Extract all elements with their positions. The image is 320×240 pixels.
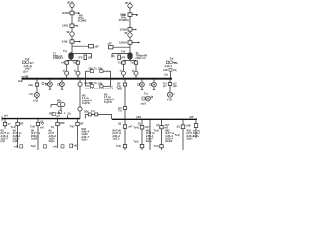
breaker branch A1	[65, 61, 68, 64]
breaker branch B1	[122, 61, 125, 64]
disconnect circle chain B	[128, 33, 132, 37]
svg-text:(F(2: (F(2	[49, 112, 54, 115]
junction dots bottom buses	[4, 118, 197, 120]
feeder drop M4	[150, 80, 157, 90]
junction dots main bus	[36, 78, 171, 80]
svg-text:IF4: IF4	[122, 57, 126, 60]
bottom bus right	[112, 118, 197, 120]
breaker branch B2	[134, 61, 137, 64]
bottom drop x183	[181, 120, 185, 150]
svg-text:Tx(: Tx(	[73, 62, 77, 65]
left mini cluster	[23, 61, 30, 64]
bottom stub box near x20	[20, 145, 23, 148]
svg-text:GB(: GB(	[98, 82, 103, 85]
disconnect circle branch A1	[65, 71, 69, 75]
svg-text:TxB(: TxB(	[116, 88, 122, 91]
svg-text:(2): (2)	[40, 120, 43, 123]
svg-text:x2F: x2F	[108, 43, 113, 46]
svg-text:AC(M45): AC(M45)	[119, 19, 129, 22]
svg-text:Tx4(: Tx4(	[116, 145, 121, 148]
svg-text:(x(20: (x(20	[13, 140, 19, 143]
breaker Q3 chain A	[70, 40, 80, 43]
svg-text:1x(2 W: 1x(2 W	[82, 102, 91, 105]
svg-text:W(x: W(x	[57, 99, 62, 102]
svg-text:G250: G250	[62, 11, 70, 15]
svg-text:Tx4(: Tx4(	[133, 140, 138, 143]
svg-text:x4?: x4?	[40, 127, 45, 130]
disconnect circle branch A2	[76, 71, 80, 75]
metering bracket B	[100, 70, 111, 88]
breaker Q6 chain B	[128, 41, 140, 44]
svg-text:Tx(: Tx(	[118, 62, 122, 65]
svg-text:x4x(: x4x(	[28, 84, 33, 87]
svg-text:GB(: GB(	[98, 67, 103, 70]
disconnect circle branch B2	[134, 71, 138, 75]
svg-text:(2x?: (2x?	[23, 70, 29, 73]
bottom drop x38	[36, 119, 43, 150]
bottom drop x125 continuation	[123, 120, 126, 150]
bottom drop x150 plain	[149, 120, 151, 150]
svg-text:120(4: 120(4	[119, 41, 127, 45]
wire split chain B	[124, 60, 137, 79]
svg-text:Tx4(: Tx4(	[154, 145, 159, 148]
svg-text:x4(: x4(	[14, 146, 18, 149]
disconnect circle chain A	[70, 32, 74, 36]
svg-text:DB(: DB(	[84, 111, 89, 114]
feeder drop M2	[58, 80, 65, 90]
svg-text:Tx4(: Tx4(	[175, 134, 180, 137]
svg-text:x4(: x4(	[61, 62, 65, 65]
svg-text:1x(2 W: 1x(2 W	[104, 101, 113, 104]
svg-text:(3x(20: (3x(20	[165, 140, 173, 143]
node B source terminal	[128, 2, 132, 8]
svg-text:x(P: x(P	[173, 85, 177, 88]
svg-text:(2): (2)	[156, 124, 159, 127]
wire split chain A	[67, 60, 78, 79]
svg-text:Tx(: Tx(	[130, 62, 134, 65]
bottom stub box near x43.5	[44, 145, 47, 148]
svg-text:145(: 145(	[62, 24, 68, 28]
wire chain B main vertical	[129, 8, 131, 54]
svg-text:x2F: x2F	[95, 46, 100, 49]
svg-text:3x(2+: 3x(2+	[193, 135, 200, 138]
bottom stub box near x70	[70, 144, 73, 148]
metering bracket A	[86, 70, 94, 88]
svg-text:AC(M4): AC(M4)	[78, 19, 87, 22]
bottom drop x161.5	[160, 120, 163, 150]
standalone transformer cluster lower-left	[51, 102, 65, 113]
transformer T1	[69, 53, 74, 60]
svg-text:IFV: IFV	[79, 57, 83, 60]
svg-text:x4B: x4B	[163, 69, 168, 72]
svg-text:(2F: (2F	[88, 57, 92, 60]
bottom drop x17.6	[16, 119, 19, 148]
svg-text:x(: x(	[63, 70, 65, 73]
svg-text:3x(2+: 3x(2+	[81, 139, 88, 142]
svg-text:(2P: (2P	[190, 116, 194, 119]
svg-text:x?B: x?B	[167, 99, 172, 102]
svg-text:x4B(: x4B(	[23, 75, 28, 78]
svg-text:Tx4(: Tx4(	[30, 126, 35, 129]
feeder drop M1	[46, 80, 53, 90]
svg-text:x4(: x4(	[173, 69, 177, 72]
svg-text:x(: x(	[74, 70, 76, 73]
svg-text:x4x: x4x	[174, 62, 179, 65]
svg-text:(2): (2)	[138, 122, 141, 125]
feeder drop with motor x37	[34, 80, 44, 100]
svg-text:W: W	[67, 30, 70, 34]
surge arrester chain A	[72, 54, 92, 60]
svg-text:(2): (2)	[68, 112, 71, 115]
svg-text:W: W	[125, 31, 128, 35]
bottom drop x5	[3, 119, 6, 129]
svg-text:Tx(: Tx(	[170, 58, 174, 61]
wire stub right chain A	[72, 45, 94, 48]
svg-text:Tx(: Tx(	[91, 110, 95, 113]
bottom drop x57.5	[56, 119, 59, 148]
standalone motor cluster mid-right	[142, 96, 153, 101]
surge arrester chain B	[112, 54, 130, 60]
feeder drop M3	[138, 80, 145, 90]
svg-text:(x4: (x4	[4, 114, 8, 117]
breaker Q1 chain A	[70, 11, 80, 15]
svg-text:TxF: TxF	[25, 58, 30, 61]
svg-text:Tx(: Tx(	[118, 109, 122, 112]
svg-text:x4B: x4B	[186, 125, 191, 128]
svg-text:3x(20: 3x(20	[31, 138, 38, 141]
svg-text:x4(: x4(	[53, 146, 57, 149]
bus tie feeder x80	[78, 80, 82, 119]
svg-text:(2F: (2F	[20, 123, 24, 126]
breaker Q5 chain B	[128, 28, 137, 32]
svg-text:(x(2: (x(2	[1, 140, 6, 143]
svg-text:Tx(: Tx(	[144, 92, 148, 95]
svg-text:3x(2+: 3x(2+	[49, 140, 56, 143]
breaker Q2 chain A	[70, 24, 78, 28]
small box on left bus	[52, 113, 55, 116]
dashed tie line	[86, 87, 114, 89]
feeder x125 long	[123, 80, 126, 120]
svg-text:W: W	[67, 1, 70, 5]
node A source terminal	[70, 1, 74, 7]
svg-text:x4?: x4?	[128, 125, 133, 128]
main bus	[22, 76, 172, 81]
breaker Q4 chain B	[128, 13, 138, 17]
svg-text:(02F: (02F	[60, 122, 66, 125]
svg-text:x(x?(: x(x?(	[141, 102, 147, 105]
bottom stub box near x61	[61, 145, 64, 148]
bottom drop x142	[140, 120, 144, 150]
svg-text:x4(: x4(	[29, 93, 33, 96]
svg-text:(Ax: (Ax	[18, 80, 23, 83]
right mini cluster	[166, 61, 176, 78]
svg-text:Tx4(: Tx4(	[154, 130, 159, 133]
svg-text:GB( Tx: GB( Tx	[89, 67, 98, 70]
svg-text:x?(2: x?(2	[33, 99, 39, 102]
svg-text:(2x: (2x	[164, 73, 168, 76]
bottom drop x77.5	[76, 119, 79, 150]
svg-text:W: W	[125, 1, 128, 5]
svg-text:15B/34.5: 15B/34.5	[53, 57, 64, 60]
svg-text:1x(2.0: 1x(2.0	[112, 138, 120, 141]
svg-text:(x?: (x?	[163, 85, 167, 88]
svg-text:(2): (2)	[118, 123, 121, 126]
disconnect circle branch B1	[122, 71, 126, 75]
svg-text:x(: x(	[132, 70, 134, 73]
svg-text:Tx4: Tx4	[121, 50, 126, 53]
svg-text:Tx(2: Tx(2	[31, 145, 37, 148]
wire stub left chain B	[109, 46, 131, 49]
svg-text:x4(?: x4(?	[145, 126, 151, 129]
svg-text:GB( Tx: GB( Tx	[89, 82, 98, 85]
stub above bus x67.5	[67, 115, 69, 118]
bottom bus left	[2, 116, 80, 120]
svg-text:Tx4(: Tx4(	[133, 127, 138, 130]
motor feeder x170	[168, 80, 175, 98]
bottom drop x196	[194, 120, 198, 138]
bottom tie jumper	[85, 113, 111, 119]
svg-text:Tx4(: Tx4(	[72, 145, 77, 148]
svg-text:Tx(: Tx(	[63, 50, 67, 53]
svg-text:(x(2+4: (x(2+4	[165, 65, 173, 68]
svg-text:145(: 145(	[62, 40, 68, 44]
wire chain A main vertical	[71, 7, 73, 53]
svg-text:T4(?: T4(?	[70, 126, 76, 129]
svg-text:(2F: (2F	[80, 123, 84, 126]
svg-text:(4): (4)	[112, 55, 115, 58]
svg-text:(2H): (2H)	[136, 116, 141, 119]
svg-text:(2(: (2(	[177, 125, 180, 128]
svg-text:(2F)2 4 2: (2F)2 4 2	[136, 57, 147, 60]
transformer T2	[128, 53, 133, 60]
svg-text:(x?: (x?	[57, 115, 61, 118]
breaker branch A2	[76, 61, 79, 64]
svg-text:x(: x(	[120, 70, 122, 73]
svg-text:3x(2+: 3x(2+	[186, 138, 193, 141]
svg-text:x(: x(	[45, 82, 47, 85]
svg-text:3x(2+: 3x(2+	[146, 140, 153, 143]
